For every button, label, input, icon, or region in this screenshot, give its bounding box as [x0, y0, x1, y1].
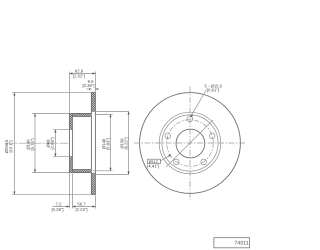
middle dimension D148 extension lines: [91, 112, 128, 175]
front view: bolt hole upper-right: [209, 133, 215, 139]
section view: axis centreline: [5, 142, 69, 144]
svg-text:[2.52"]: [2.52"]: [73, 73, 85, 78]
section view: hat mounting face: [70, 113, 73, 172]
section view: hat wall top: [70, 113, 92, 116]
section view: hat wall bottom: [70, 170, 92, 173]
dimension D146: [26, 113, 70, 172]
front view: bolt hole lower-right: [201, 159, 207, 165]
title block: [214, 238, 250, 248]
section view: centre bore edges: [53, 130, 72, 157]
dimension D68 bore: [46, 130, 57, 157]
front view: horizontal centreline: [134, 142, 247, 144]
svg-text:56.7: 56.7: [77, 202, 86, 207]
front view: friction band inner circles: [159, 112, 221, 174]
svg-text:[10.1"]: [10.1"]: [8, 141, 13, 153]
front view: bolt hole top: [187, 116, 193, 122]
dimension 7.2 hat face thickness: [52, 174, 73, 213]
leader D112 bolt circle (boxed): [147, 155, 171, 169]
svg-text:74011: 74011: [235, 241, 249, 247]
svg-text:[4.41"]: [4.41"]: [147, 163, 159, 168]
front view: bolt circle (dash-dot): [167, 120, 214, 167]
svg-text:[6.22"]: [6.22"]: [124, 138, 129, 150]
svg-text:[0.61"]: [0.61"]: [207, 88, 219, 93]
svg-text:[5.83"]: [5.83"]: [105, 138, 110, 150]
svg-text:[5.75"]: [5.75"]: [30, 139, 35, 151]
middle dimension D158: [119, 112, 129, 175]
front view: outer circle: [140, 93, 241, 194]
front view: centre bore: [176, 129, 205, 158]
dimension 56.7: [72, 195, 95, 212]
leader 5-D15.5 bolt holes: [190, 83, 222, 117]
svg-text:[0.28"]: [0.28"]: [52, 207, 64, 212]
middle dimension D148: [101, 114, 111, 171]
dimension D256.5: [4, 92, 91, 194]
dimension 9.9 disc thickness: [83, 79, 99, 90]
section view: disc friction ring: [91, 92, 95, 194]
svg-text:[0.39"]: [0.39"]: [83, 83, 95, 88]
svg-text:7.2: 7.2: [56, 202, 62, 207]
svg-text:[2.23"]: [2.23"]: [76, 207, 88, 212]
svg-text:[2.68"]: [2.68"]: [50, 138, 55, 150]
dimension 62.9 overall height: [70, 69, 96, 114]
front view: vertical centreline: [189, 87, 191, 200]
front view: bolt hole lower-left: [174, 159, 180, 165]
front view: diagonal centreline: [166, 120, 213, 167]
front view: bolt hole upper-left: [165, 133, 171, 139]
